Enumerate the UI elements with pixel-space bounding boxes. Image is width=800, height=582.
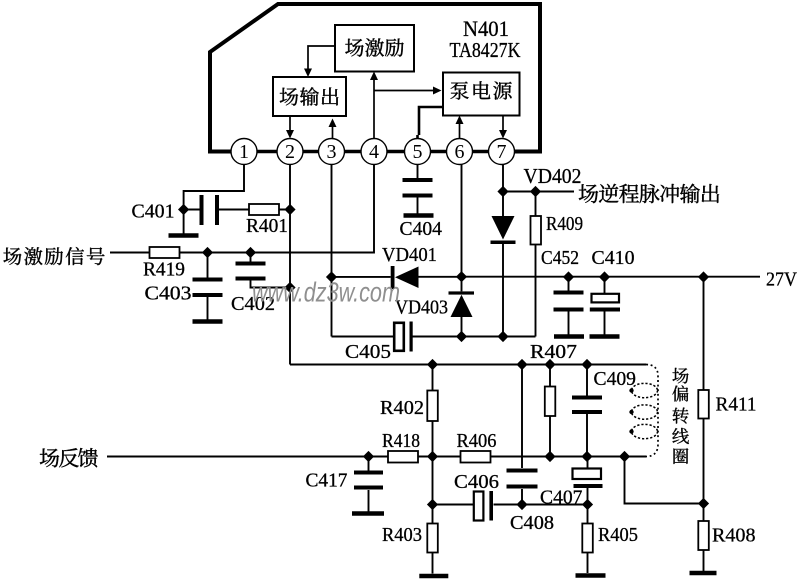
- wire VD402 output: [503, 191, 574, 193]
- node C409/C407 junction: [581, 451, 592, 462]
- wire R402 stems: [432, 365, 434, 457]
- node coil bottom junction: [619, 451, 630, 462]
- label 场输出 (field output): [280, 87, 339, 106]
- node C452 top: [563, 271, 574, 282]
- wire pump row (y364.5): [290, 364, 646, 366]
- node C403 junction: [202, 247, 213, 258]
- wire pump-to-pin7 arrow: [502, 116, 504, 131]
- wire coil bottom to R408 node: [625, 457, 704, 504]
- wire R408 stems: [703, 504, 705, 572]
- wire R403 branch: [432, 457, 434, 574]
- capacitor C404: [403, 180, 433, 196]
- label 场激励信号 (field drive signal): [3, 247, 104, 265]
- label 场偏转线圈 (field deflection coil): [672, 368, 689, 464]
- capacitor C403: [193, 280, 223, 296]
- ground R405: [576, 573, 606, 578]
- wire C410 stems: [604, 277, 606, 335]
- wire R411 stems: [703, 277, 705, 504]
- wire output-to-pin2 arrow: [289, 116, 291, 130]
- node R409 top: [530, 186, 541, 197]
- wire pin6-to-pump arrow: [459, 124, 461, 139]
- node C417 junction: [363, 451, 374, 462]
- resistor R406: [461, 451, 491, 463]
- capacitor C405: [394, 323, 404, 351]
- node VD402/C405 row: [497, 331, 508, 342]
- wire C417 stems: [368, 457, 370, 512]
- capacitor C410 (polarized): [592, 294, 620, 303]
- resistor R407: [545, 387, 556, 417]
- node VD401 cathode / pin3: [326, 271, 337, 282]
- label 场反馈 (field feedback): [40, 448, 98, 467]
- node C409 top junction: [581, 359, 592, 370]
- wire R409 stems: [535, 192, 537, 337]
- node C408 bottom: [516, 499, 527, 510]
- wire pin3 down: [331, 165, 333, 337]
- IC inner block: field output box: [273, 77, 346, 116]
- pin 1: [231, 139, 257, 165]
- svg-text:R401: R401: [246, 216, 288, 237]
- svg-text:27V: 27V: [766, 270, 797, 291]
- resistor R405: [582, 524, 593, 553]
- svg-text:R408: R408: [712, 526, 756, 547]
- svg-text:C401: C401: [132, 202, 175, 223]
- svg-text:4: 4: [369, 141, 379, 163]
- resistor R418: [388, 451, 418, 463]
- resistor R419: [150, 247, 180, 258]
- diode VD401: [391, 266, 419, 289]
- wire VD403 stems: [461, 277, 463, 337]
- node C402/pin2 junction: [284, 282, 295, 293]
- wire C409 stems: [586, 365, 588, 457]
- capacitor C417: [354, 473, 383, 488]
- svg-text:www.dz3w.com: www.dz3w.com: [252, 277, 400, 308]
- wire C406 row: [433, 504, 588, 506]
- node R411 top: [698, 271, 709, 282]
- svg-text:6: 6: [455, 141, 465, 163]
- op-amp U1: IC N401 TA8427K body outline: [210, 4, 540, 152]
- ground R403: [419, 574, 448, 579]
- wire R405 stems: [587, 505, 589, 574]
- svg-text:R411: R411: [716, 395, 757, 416]
- capacitor C401: [202, 195, 218, 225]
- node R411/R408 junction: [698, 498, 709, 509]
- svg-text:1: 1: [239, 141, 249, 163]
- svg-text:TA8427K: TA8427K: [450, 38, 521, 62]
- inductor: coil loops: [632, 383, 658, 438]
- node R407 bottom junction: [544, 451, 555, 462]
- svg-text:R402: R402: [380, 398, 424, 419]
- capacitor C452: [554, 293, 584, 310]
- capacitor C406 (polarized): [474, 492, 484, 521]
- node R402 top junction: [427, 359, 438, 370]
- wire pin7 down: [502, 165, 504, 192]
- svg-text:C408: C408: [510, 513, 554, 534]
- svg-text:R407: R407: [530, 342, 577, 363]
- svg-text:C417: C417: [306, 471, 348, 492]
- svg-text:C407: C407: [540, 488, 583, 509]
- wire pin5 to pump box: [418, 107, 444, 139]
- IC inner block: field drive box: [335, 25, 414, 72]
- resistor R409: [531, 216, 542, 245]
- wire 27V rail: [462, 276, 761, 278]
- wire pin2 down to feedback row: [289, 165, 291, 365]
- capacitor C408: [507, 471, 538, 487]
- ground R408: [690, 571, 717, 576]
- wire C452 stems: [568, 277, 570, 335]
- resistor R403: [427, 524, 438, 553]
- svg-text:VD403: VD403: [395, 297, 448, 319]
- capacitor C409: [572, 398, 602, 413]
- svg-text:R418: R418: [382, 431, 420, 452]
- node VD403/C405 row: [456, 331, 467, 342]
- wire C407 stems: [587, 457, 589, 505]
- wire VD401 left: [332, 276, 391, 278]
- svg-text:C410: C410: [592, 248, 635, 269]
- svg-text:C404: C404: [400, 219, 443, 240]
- pin 3: [319, 139, 345, 165]
- pin 4: [361, 139, 387, 165]
- node R407 top junction: [544, 359, 555, 370]
- pin 2: [277, 139, 303, 165]
- capacitor C402: [236, 264, 266, 279]
- wire pin3-to-output arrow: [332, 126, 334, 139]
- wire R407 stems: [549, 365, 551, 457]
- wire C403 stems: [207, 253, 209, 320]
- pin 7: [489, 139, 515, 165]
- ground C401: [169, 233, 199, 238]
- IC pin-row connector bars: [257, 150, 489, 154]
- wire pin5 to C404: [417, 165, 419, 214]
- svg-text:3: 3: [327, 141, 337, 163]
- ground C417: [352, 511, 384, 516]
- wire C405 row: [332, 336, 536, 338]
- ground C452: [554, 334, 584, 339]
- label 泵电源 (pump supply): [450, 81, 511, 99]
- wire C402 stems: [251, 253, 291, 288]
- resistor R401: [249, 204, 279, 215]
- node R418/R406/R402 junction: [427, 451, 438, 462]
- svg-text:R403: R403: [382, 525, 422, 546]
- svg-text:VD402: VD402: [524, 164, 582, 188]
- wire drive-to-output with arrow: [308, 46, 335, 70]
- svg-text:7: 7: [497, 141, 507, 163]
- node VD401 anode / 27V rail: [456, 271, 467, 282]
- ground C403: [193, 319, 223, 324]
- resistor R402: [427, 391, 438, 422]
- node C407/R405: [582, 499, 593, 510]
- wire pin1 down-left: [184, 165, 244, 208]
- label 场逆程脉冲输出 (field flyback pulse output): [579, 184, 719, 204]
- capacitor C407 (polarized): [573, 469, 602, 480]
- node C408 top junction: [516, 359, 527, 370]
- node C402 junction: [245, 247, 256, 258]
- svg-text:C405: C405: [345, 342, 391, 363]
- resistor R408: [698, 521, 709, 550]
- wire feedback row: [107, 456, 646, 458]
- svg-text:R406: R406: [457, 431, 497, 452]
- svg-text:VD401: VD401: [382, 244, 437, 266]
- node pin1/C401 junction: [178, 204, 189, 215]
- svg-text:C403: C403: [145, 284, 192, 305]
- svg-text:C406: C406: [454, 472, 499, 493]
- svg-text:R405: R405: [598, 525, 638, 546]
- wire pin6 down: [461, 165, 463, 277]
- ground C404: [404, 213, 434, 218]
- diode VD402: [491, 216, 516, 244]
- pin 6: [447, 139, 473, 165]
- svg-text:R409: R409: [546, 214, 583, 235]
- resistor R411: [698, 390, 709, 419]
- wire C408 long stem: [521, 365, 523, 505]
- svg-text:R419: R419: [143, 260, 185, 281]
- node C410 top: [599, 271, 610, 282]
- svg-text:5: 5: [413, 141, 423, 163]
- inductor: deflection coil outline (dotted): [646, 365, 658, 457]
- svg-text:2: 2: [285, 141, 295, 163]
- ground C410: [590, 334, 620, 339]
- diode VD403: [449, 291, 475, 317]
- wire drive-to-pump arrow: [374, 90, 434, 92]
- wire VD401 right: [419, 276, 462, 278]
- node R401/pin2 junction: [284, 204, 295, 215]
- svg-text:C409: C409: [594, 369, 637, 390]
- node pin7/VD402: [497, 186, 508, 197]
- node C406 left: [427, 499, 438, 510]
- wire drive signal input: [110, 165, 374, 253]
- svg-text:C452: C452: [541, 248, 579, 269]
- wire C401 node: [184, 210, 290, 234]
- IC inner block: pump power box: [443, 73, 520, 116]
- label 场激励 (field drive): [345, 38, 403, 56]
- pin 5: [405, 139, 431, 165]
- wire VD402 stems: [502, 192, 504, 337]
- wire pin4-to-drive arrow: [373, 80, 375, 139]
